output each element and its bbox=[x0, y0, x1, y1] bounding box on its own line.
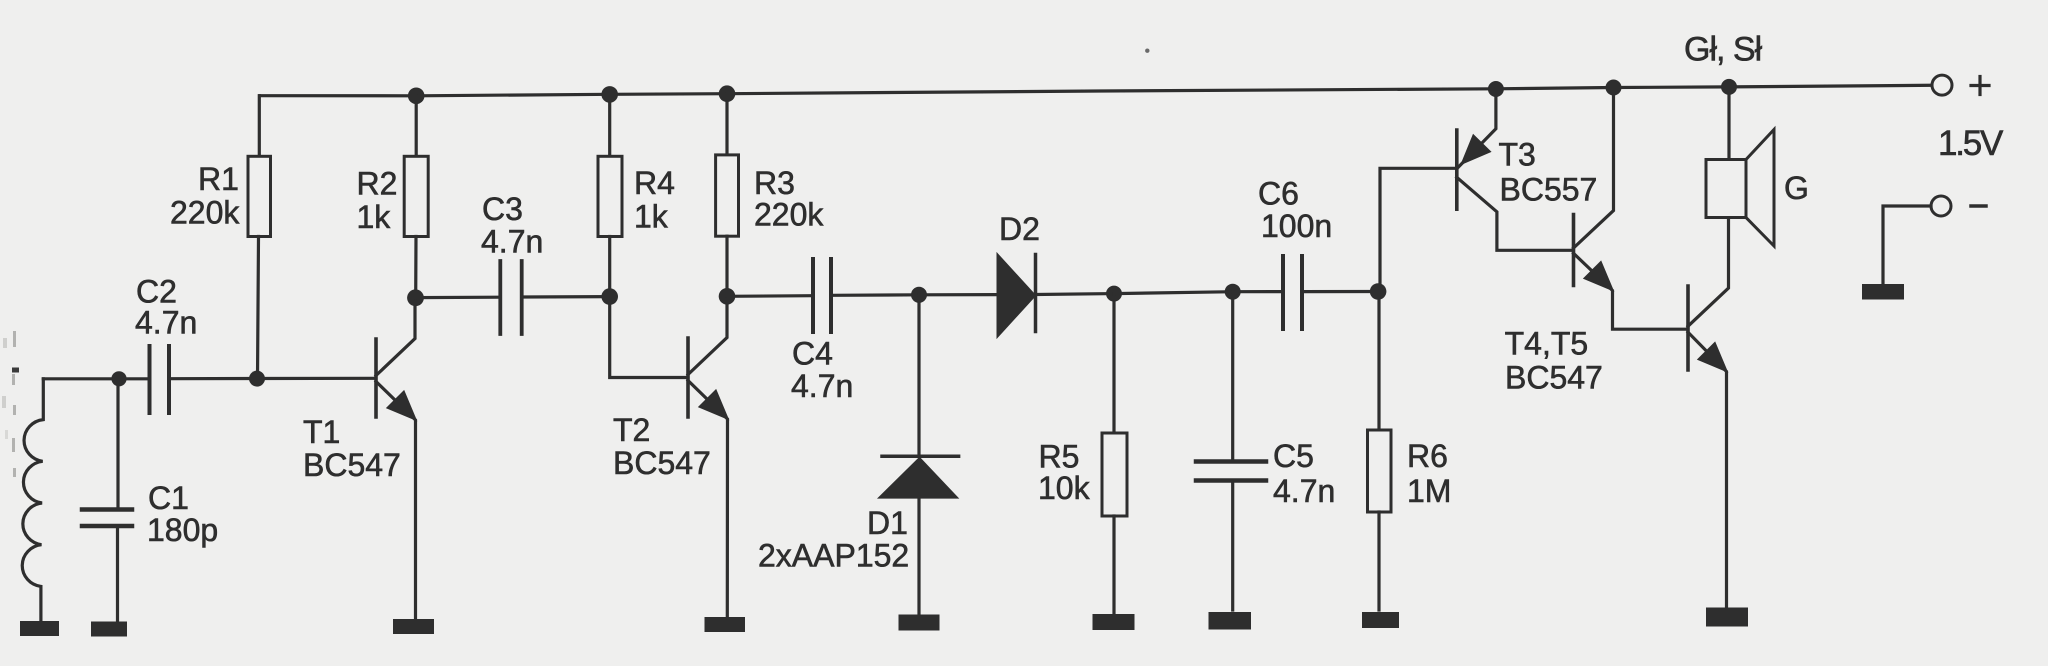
svg-text:T4,T5: T4,T5 bbox=[1505, 325, 1589, 361]
svg-text:D1: D1 bbox=[867, 505, 908, 541]
svg-text:C5: C5 bbox=[1273, 438, 1314, 474]
svg-text:Gł, Sł: Gł, Sł bbox=[1684, 31, 1763, 69]
node T1 collector bbox=[407, 289, 424, 306]
svg-text:1k: 1k bbox=[634, 199, 669, 235]
capacitor C4 bbox=[727, 259, 919, 332]
transistor T3 bbox=[1457, 81, 1572, 250]
label T4 T5 BC547 bbox=[1505, 325, 1603, 395]
resistor R6 bbox=[1368, 292, 1392, 611]
svg-text:4.7n: 4.7n bbox=[1273, 473, 1335, 509]
label T2 BC547 bbox=[613, 412, 711, 481]
resistor R2 bbox=[404, 88, 428, 298]
svg-text:180p: 180p bbox=[147, 512, 218, 548]
svg-text:BC547: BC547 bbox=[613, 445, 711, 481]
svg-text:T3: T3 bbox=[1499, 137, 1536, 173]
node R3 bottom bbox=[719, 288, 736, 305]
ground T2 emitter bbox=[705, 617, 746, 632]
svg-text:T1: T1 bbox=[303, 414, 340, 450]
wire C2 to T1 base bbox=[171, 377, 375, 381]
ground C1 bbox=[91, 622, 127, 637]
capacitor C6 bbox=[1233, 256, 1378, 329]
label T3 BC557 bbox=[1499, 137, 1598, 208]
label R2 value 1k bbox=[357, 165, 398, 235]
label C4 value 4.7n bbox=[791, 336, 853, 405]
ground C5 bbox=[1209, 612, 1252, 630]
label R1 value 220k bbox=[170, 161, 240, 231]
node D1 top bbox=[911, 287, 927, 303]
svg-text:10k: 10k bbox=[1038, 470, 1091, 506]
label R3 value 220k bbox=[754, 165, 824, 232]
svg-text:R4: R4 bbox=[634, 165, 675, 201]
wire D1 node to D2 bbox=[919, 293, 996, 296]
ground R5 bbox=[1093, 614, 1135, 630]
diode D1 bbox=[879, 295, 958, 613]
svg-text:C1: C1 bbox=[148, 480, 189, 516]
wire top supply rail bbox=[260, 85, 1932, 96]
label C6 value 100n bbox=[1258, 176, 1332, 245]
svg-text:4.7n: 4.7n bbox=[791, 368, 853, 404]
ground D1 bbox=[899, 615, 940, 631]
scan artifact gray speckles bbox=[2, 331, 16, 477]
capacitor C5 bbox=[1196, 292, 1266, 610]
transistor T1 bbox=[376, 298, 416, 619]
speaker G bbox=[1706, 79, 1774, 246]
diode D2 bbox=[998, 255, 1115, 337]
svg-text:220k: 220k bbox=[754, 196, 824, 232]
svg-text:R1: R1 bbox=[198, 161, 239, 197]
svg-text:1k: 1k bbox=[357, 199, 392, 235]
terminal minus bbox=[1883, 196, 1986, 284]
scan artifact dark dash bbox=[12, 368, 19, 373]
capacitor C3 bbox=[416, 261, 610, 334]
resistor R3 bbox=[716, 85, 739, 296]
svg-text:R6: R6 bbox=[1407, 438, 1448, 474]
svg-text:2xAAP152: 2xAAP152 bbox=[758, 538, 909, 574]
terminal plus bbox=[1932, 75, 1989, 95]
svg-text:BC547: BC547 bbox=[1505, 360, 1603, 396]
capacitor C1 bbox=[82, 379, 132, 622]
label D2 bbox=[999, 211, 1040, 247]
resistor R4 bbox=[598, 86, 622, 297]
svg-text:T2: T2 bbox=[613, 412, 650, 448]
svg-text:D2: D2 bbox=[999, 211, 1040, 247]
svg-text:4.7n: 4.7n bbox=[481, 224, 543, 260]
label R6 value 1M bbox=[1407, 438, 1451, 509]
wire R4 node to T2 base bbox=[610, 297, 687, 378]
wire coil top to node bbox=[43, 377, 119, 380]
svg-text:220k: 220k bbox=[170, 195, 240, 231]
svg-text:100n: 100n bbox=[1261, 208, 1332, 244]
svg-text:C3: C3 bbox=[482, 191, 523, 227]
ground T1 emitter bbox=[393, 619, 434, 634]
svg-text:C4: C4 bbox=[792, 336, 833, 372]
label 1.5V supply bbox=[1938, 124, 2004, 163]
antenna coil L bbox=[22, 379, 43, 621]
svg-text:BC557: BC557 bbox=[1500, 171, 1598, 207]
label C5 value 4.7n bbox=[1273, 438, 1335, 509]
transistor T4 bbox=[1574, 80, 1687, 330]
label C2 value 4.7n bbox=[135, 274, 197, 341]
svg-text:BC547: BC547 bbox=[303, 447, 401, 483]
label R5 value 10k bbox=[1038, 439, 1091, 507]
label speaker G bbox=[1784, 170, 1809, 206]
node R1 base junction bbox=[249, 371, 265, 387]
scan artifact speck bbox=[1145, 49, 1149, 53]
node R4 bottom bbox=[601, 288, 618, 305]
wire R6 node to T3 base bbox=[1380, 168, 1457, 291]
ground R6 bbox=[1362, 612, 1399, 628]
svg-text:R2: R2 bbox=[357, 165, 398, 201]
ground T5 emitter bbox=[1706, 608, 1748, 627]
label C1 value 180p bbox=[147, 480, 218, 548]
wire R5 node to C5 node bbox=[1114, 292, 1233, 294]
transistor T5 bbox=[1688, 218, 1729, 608]
ground coil bbox=[20, 621, 59, 636]
node antenna junction bbox=[111, 371, 126, 386]
ground minus terminal bbox=[1862, 284, 1904, 300]
label D1 2xAAP152 bbox=[758, 505, 909, 574]
svg-text:G: G bbox=[1784, 170, 1809, 206]
resistor R5 bbox=[1102, 294, 1127, 613]
capacitor C2 bbox=[120, 346, 169, 413]
svg-text:1.5V: 1.5V bbox=[1938, 124, 2004, 163]
node R5 top bbox=[1106, 286, 1122, 302]
resistor R1 bbox=[248, 96, 271, 379]
svg-text:1M: 1M bbox=[1407, 473, 1451, 509]
label C3 value 4.7n bbox=[481, 191, 543, 260]
label T1 BC547 bbox=[303, 414, 401, 483]
node C5 top bbox=[1225, 284, 1241, 300]
label R4 value 1k bbox=[634, 165, 675, 235]
node R6 top bbox=[1370, 283, 1387, 300]
transistor T2 bbox=[688, 296, 728, 617]
svg-text:C6: C6 bbox=[1258, 176, 1299, 212]
svg-text:4.7n: 4.7n bbox=[135, 305, 197, 341]
label Gl Sl output bbox=[1684, 31, 1763, 69]
